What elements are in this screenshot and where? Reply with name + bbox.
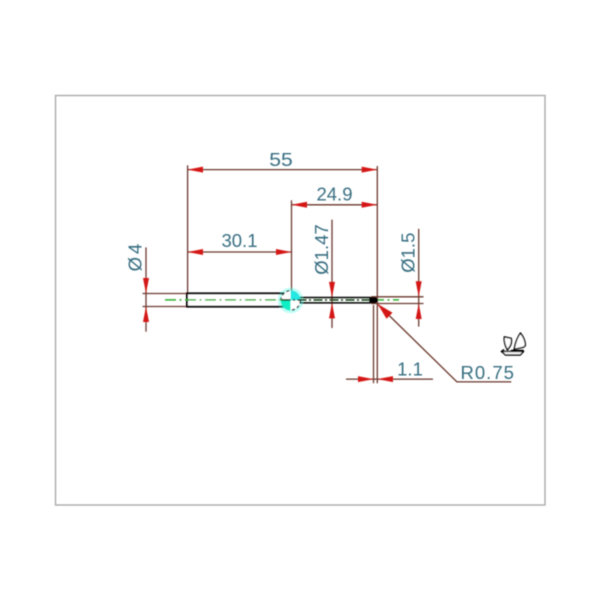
svg-text:Ø1.47: Ø1.47 bbox=[311, 224, 332, 274]
part main body bbox=[187, 293, 291, 306]
dimension diameter 4 bbox=[124, 244, 149, 332]
dimension diameter 1.5 bbox=[398, 229, 422, 327]
svg-text:Ø4: Ø4 bbox=[124, 244, 145, 272]
extension line middle (x=291.5) bbox=[291, 200, 293, 290]
dimension 24.9 bbox=[292, 183, 378, 207]
leader R0.75 bbox=[378, 304, 514, 383]
dimension 30.1 bbox=[188, 230, 292, 255]
svg-text:24.9: 24.9 bbox=[316, 183, 352, 204]
extension line tip cap start (x=373.5) bbox=[373, 305, 375, 383]
drawing border bbox=[56, 96, 546, 506]
ball joint marker bbox=[278, 288, 304, 314]
svg-text:Ø1.5: Ø1.5 bbox=[398, 233, 419, 273]
dimension 55 bbox=[188, 149, 378, 173]
part thin shaft bbox=[291, 297, 371, 299]
logo boat bbox=[501, 333, 525, 355]
extension line left (x=187.5) bbox=[187, 165, 189, 293]
svg-text:55: 55 bbox=[269, 149, 293, 170]
svg-text:30.1: 30.1 bbox=[221, 230, 257, 251]
dimension diameter 1.47 bbox=[311, 220, 335, 328]
svg-text:1.1: 1.1 bbox=[397, 359, 423, 380]
extension lines diameter 4 bbox=[143, 293, 188, 295]
svg-text:R0.75: R0.75 bbox=[461, 362, 514, 383]
part tip R0.75 bbox=[369, 297, 377, 303]
dimension 1.1 bbox=[346, 359, 433, 383]
centerline bbox=[165, 299, 282, 301]
extension lines diameter 1.5 bbox=[371, 296, 424, 298]
extension line right tip (x=377.2) bbox=[376, 166, 378, 383]
